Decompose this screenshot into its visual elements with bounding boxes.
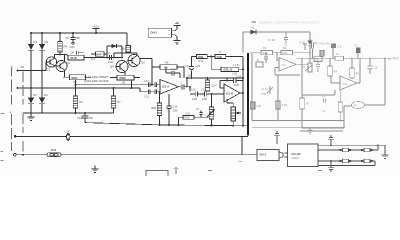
op-amp U3	[340, 76, 357, 90]
svg-text:Q2: Q2	[67, 61, 71, 65]
capacitor C1 electrolytic on rail	[84, 112, 86, 114]
svg-text:22M: 22M	[108, 60, 113, 64]
wire Q2 emitter down	[64, 70, 66, 78]
resistor RW1	[63, 76, 70, 78]
power flag top	[174, 22, 181, 25]
resistor R13 vertical	[205, 80, 209, 91]
capacitor C17	[155, 90, 157, 95]
wire right column	[384, 58, 386, 90]
wire top resistor chain	[192, 56, 197, 58]
capacitor C12 feedback	[166, 67, 172, 73]
wire op3 out	[296, 63, 310, 65]
svg-text:R1B: R1B	[217, 55, 222, 59]
diode D1	[30, 33, 32, 44]
capacitor C16 electrolytic	[168, 94, 170, 106]
wire bottom rail	[85, 123, 248, 126]
box zener small	[256, 62, 263, 67]
svg-text:R2: R2	[283, 46, 287, 50]
svg-text:FU1: FU1	[51, 148, 57, 152]
svg-text:C5: C5	[66, 36, 70, 40]
svg-text:D3: D3	[33, 93, 37, 97]
svg-text:V2: V2	[302, 65, 306, 69]
svg-text:22M: 22M	[70, 45, 75, 49]
capacitor C13	[147, 84, 148, 86]
ground right x385	[382, 155, 389, 158]
capacitor C19	[204, 92, 224, 97]
svg-text:IC1-B: IC1-B	[226, 92, 233, 96]
wire right top rail	[243, 31, 310, 33]
svg-text:1C?-B 4.7M: 1C?-B 4.7M	[316, 42, 330, 46]
wire op3 fb	[275, 68, 300, 76]
node top rail junctions	[30, 32, 97, 34]
resistor R10	[179, 116, 184, 118]
transistor Q3	[128, 55, 140, 67]
svg-text:22M: 22M	[192, 97, 197, 101]
wire primary line 2	[16, 154, 257, 156]
svg-text:C4: C4	[107, 51, 111, 55]
svg-text:SCHEMATIC DIAGRAM PWR AMP MOD: SCHEMATIC DIAGRAM PWR AMP MODULE SHT 2	[259, 21, 320, 25]
left column line	[252, 53, 344, 128]
svg-text:R22: R22	[283, 51, 288, 55]
svg-text:C16: C16	[173, 105, 178, 109]
capacitor C10 electrolytic	[191, 70, 193, 78]
wire out line T2	[296, 57, 390, 59]
resistor R11	[196, 54, 207, 58]
potentiometer VR2	[309, 58, 311, 63]
wire DH1 top pin	[172, 26, 178, 31]
svg-text:D2: D2	[45, 40, 49, 44]
svg-text:R1B: R1B	[198, 55, 203, 59]
capacitor drop on rail	[284, 32, 288, 43]
capacitor C26 on T2 riser	[357, 53, 359, 58]
diode D3	[30, 71, 32, 99]
svg-text:L1B: L1B	[237, 75, 242, 79]
op-amp U1A	[160, 80, 179, 95]
wire DH1 bottom pin	[172, 35, 178, 41]
svg-text:1C 2B: 1C 2B	[268, 39, 275, 42]
junction dots T2	[309, 57, 386, 59]
svg-text:Q3&4 ARE 2SC945: Q3&4 ARE 2SC945	[84, 79, 109, 83]
ground above DH2	[274, 132, 280, 144]
svg-text:RLW: RLW	[71, 56, 78, 60]
diode D6	[309, 32, 311, 41]
svg-text:Q1: Q1	[47, 68, 51, 72]
svg-text:C3: C3	[322, 94, 326, 98]
svg-text:1K: 1K	[306, 102, 309, 106]
svg-text:C-B: C-B	[65, 130, 70, 134]
wire Q collector bus	[55, 52, 68, 62]
box DH1 power module	[148, 28, 171, 37]
wire feedback line	[76, 84, 148, 86]
svg-text:R8: R8	[165, 61, 169, 65]
wire right rail T1	[250, 52, 311, 54]
wire R13 bottom	[207, 90, 209, 93]
ground chassis	[92, 166, 99, 173]
resistor R4	[59, 33, 61, 42]
svg-text:DH-3: DH-3	[260, 152, 267, 156]
box DH3 plug	[257, 150, 279, 161]
svg-text:C13: C13	[144, 79, 149, 83]
svg-text:1M: 1M	[122, 81, 126, 85]
capacitor C18	[190, 92, 204, 97]
wire Q4 emitter to RW2	[110, 72, 125, 78]
wire primary line 1	[15, 135, 248, 137]
diode D4	[41, 71, 43, 99]
diode D5 on rail	[251, 29, 256, 34]
svg-text:LM1: LM1	[257, 104, 263, 108]
diode D2	[41, 33, 43, 44]
op-amp U2	[277, 53, 279, 61]
svg-text:C1B: C1B	[201, 88, 206, 92]
box bottom cut module	[146, 162, 242, 179]
svg-text:R12: R12	[199, 59, 204, 63]
svg-text:RY: RY	[354, 104, 358, 108]
svg-text:R4: R4	[64, 45, 68, 49]
capacitor C14 series	[182, 84, 184, 89]
svg-text:C18: C18	[191, 88, 196, 92]
svg-text:DH-1: DH-1	[151, 30, 158, 34]
transformer core dashed line 2	[22, 72, 24, 134]
svg-text:D5: D5	[251, 26, 255, 30]
resistor R8 feedback	[152, 67, 160, 85]
wire Q1 base	[45, 62, 47, 71]
power +42V symbol	[93, 29, 100, 34]
resistor R12	[215, 54, 226, 58]
resistor RLB	[221, 67, 239, 71]
potentiometer VR2	[227, 99, 233, 107]
svg-text:+42V: +42V	[92, 25, 99, 29]
svg-text:C: C	[181, 82, 183, 85]
capacitor C22 below Ra	[264, 53, 268, 63]
capacitor C27 vertical	[339, 90, 341, 121]
top components row above T2	[303, 44, 307, 50]
svg-text:22M: 22M	[234, 83, 239, 87]
bottom right module section	[257, 132, 389, 171]
capacitor C1B on feedback	[227, 78, 233, 81]
wire AC input b	[18, 70, 47, 72]
wire AC input a	[18, 87, 141, 89]
wire module out row1	[318, 145, 378, 150]
transistor Q1	[46, 57, 56, 67]
svg-text:BK: BK	[77, 36, 81, 40]
capacitor C5	[71, 33, 76, 43]
transformer core dashed line 1	[11, 68, 13, 152]
resistor R24 vertical	[329, 58, 331, 66]
svg-text:1M: 1M	[73, 80, 77, 84]
wire module top rail out	[318, 145, 385, 154]
svg-text:RW1: RW1	[72, 76, 79, 80]
switch S1 on primary	[67, 133, 70, 140]
capacitor C20 small	[200, 111, 203, 118]
wire top rail +V	[31, 32, 127, 34]
svg-text:1P: 1P	[21, 65, 25, 69]
svg-text:C7: C7	[70, 51, 74, 55]
capacitor pair below T2	[316, 58, 320, 72]
wire op1 out to cap row	[189, 87, 191, 92]
box DH2 module	[288, 144, 319, 167]
svg-text:Q3: Q3	[141, 61, 145, 65]
flag top x331	[328, 136, 334, 145]
svg-text:BUF: BUF	[96, 52, 102, 56]
box LM regulator	[250, 102, 255, 109]
resistor RLW	[66, 54, 68, 57]
svg-text:C5: C5	[374, 66, 378, 70]
svg-text:C C: C C	[308, 39, 313, 43]
svg-text:C15: C15	[144, 95, 149, 99]
svg-text:C1D: C1D	[77, 116, 83, 120]
box BUF	[96, 52, 105, 57]
resistor R22	[281, 51, 293, 55]
svg-text:4.7M: 4.7M	[282, 103, 288, 107]
resistor RW2	[117, 75, 134, 80]
wire module out row2	[318, 161, 375, 165]
fuse on T2	[335, 56, 344, 60]
wire op2 plus input from feedback	[220, 81, 227, 89]
svg-text:C-B: C-B	[337, 45, 342, 49]
diode D7 top loop	[107, 46, 112, 58]
resistor R6	[126, 33, 128, 46]
power flag small	[174, 167, 179, 174]
node b-D2 junction	[41, 70, 43, 72]
svg-text:R21: R21	[263, 51, 268, 55]
right page faint schematic	[250, 21, 400, 134]
fuse FU1	[47, 153, 61, 157]
svg-text:R6: R6	[121, 47, 125, 51]
svg-text:R5: R5	[79, 100, 83, 104]
tick mark	[239, 161, 243, 163]
svg-text:IC1-A: IC1-A	[162, 85, 169, 89]
inductor FB1 row1	[339, 149, 341, 151]
loop wires bottom right	[302, 106, 344, 128]
svg-text:BK: BK	[90, 116, 94, 120]
node a-D1 junction	[30, 87, 32, 89]
transistor Q4	[116, 61, 128, 73]
wire op2 output	[240, 92, 243, 94]
potentiometer small faint	[267, 86, 273, 94]
svg-text:DH-2B: DH-2B	[292, 152, 302, 156]
svg-text:C1M: C1M	[211, 84, 216, 88]
svg-text:R: R	[219, 50, 221, 54]
capacitor C14	[155, 83, 157, 88]
svg-text:RW2: RW2	[120, 76, 127, 80]
svg-text:W-4: W-4	[91, 57, 96, 61]
wire Q3 to feedback node	[128, 53, 152, 85]
svg-text:R7: R7	[117, 100, 121, 104]
inductor FB2 row1	[361, 149, 363, 151]
ground under D3	[28, 113, 35, 120]
svg-text:+1M: +1M	[195, 64, 200, 68]
wire mid rail CT	[23, 112, 114, 114]
svg-text:22M: 22M	[202, 97, 207, 101]
capacitor C7	[73, 51, 84, 55]
inductor FB4 row2	[361, 160, 363, 162]
svg-text:2.2: 2.2	[354, 45, 358, 48]
transistor Q2	[56, 61, 67, 72]
svg-text:R2: R2	[263, 46, 267, 50]
resistor R21	[261, 51, 273, 55]
capacitor C25 electrolytic	[369, 58, 371, 66]
inductor FB3 row2	[339, 160, 341, 162]
svg-text:R10: R10	[185, 116, 190, 120]
svg-text:C12: C12	[171, 67, 176, 71]
svg-text:D-B: D-B	[186, 111, 191, 115]
wire RLW to BUF	[84, 57, 122, 59]
svg-text:185: 185	[188, 74, 193, 78]
svg-text:D4: D4	[44, 93, 48, 97]
svg-text:1C-B: 1C-B	[299, 41, 305, 45]
svg-text:C4: C4	[322, 109, 326, 113]
bus thick seam	[247, 53, 249, 136]
svg-text:10M: 10M	[261, 92, 266, 96]
svg-text:D1: D1	[34, 40, 38, 44]
svg-text:R4: R4	[334, 70, 338, 74]
capacitor C4	[110, 55, 112, 60]
title tick top	[252, 21, 257, 23]
op-amp U1B	[224, 84, 240, 102]
resistor R9 vertical	[159, 92, 161, 103]
svg-text:IC2: IC2	[282, 63, 287, 67]
node RW1 bottom tap	[75, 80, 77, 85]
svg-text:L1-B: L1-B	[233, 63, 239, 67]
capacitor C21 electrolytic	[277, 75, 279, 101]
wire op4 out feedback	[357, 58, 360, 83]
bottom faint border	[252, 127, 345, 129]
svg-text:R5: R5	[356, 72, 360, 76]
relay coil oval	[352, 102, 365, 109]
margin marks	[1, 114, 323, 171]
svg-text:30B: 30B	[151, 106, 156, 110]
svg-text:MODU: MODU	[292, 157, 300, 160]
svg-text:OUTPUT: OUTPUT	[389, 57, 400, 61]
svg-text:C10: C10	[184, 64, 189, 68]
resistor R7	[113, 88, 115, 96]
svg-text:C2 1C: C2 1C	[261, 87, 268, 91]
wire input line bend	[140, 88, 147, 92]
wire primary riser	[241, 136, 243, 155]
svg-text:A: A	[10, 111, 12, 115]
ground bottom x331	[328, 161, 334, 171]
resistor R23 vertical	[301, 58, 303, 98]
wire module bottom rail out	[318, 164, 375, 166]
svg-text:IC3: IC3	[343, 82, 348, 86]
ground small mid-bottom	[308, 128, 313, 134]
capacitor C15	[147, 91, 148, 93]
svg-text:22M: 22M	[173, 109, 178, 113]
wire op1 output	[179, 86, 182, 88]
resistor R5	[75, 85, 77, 96]
potentiometer VR1	[211, 94, 213, 107]
svg-text:Q4: Q4	[110, 65, 114, 69]
svg-text:GRL-B: GRL-B	[224, 68, 233, 72]
resistor R25 vertical	[351, 58, 353, 68]
wire R mid tap down	[211, 57, 221, 70]
ground DH1	[174, 41, 181, 44]
box level set	[314, 57, 322, 62]
